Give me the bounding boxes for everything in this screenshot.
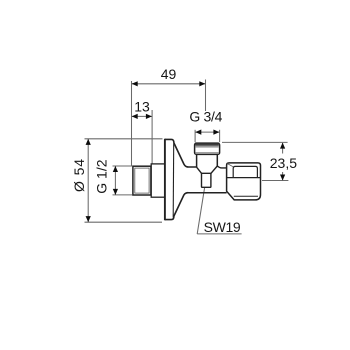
svg-text:13: 13 [134,99,150,115]
svg-text:G 3/4: G 3/4 [189,108,222,124]
svg-text:Ø 54: Ø 54 [71,158,87,192]
svg-text:23,5: 23,5 [270,155,297,171]
svg-text:49: 49 [161,66,177,82]
svg-text:G 1/2: G 1/2 [93,159,109,193]
svg-text:SW19: SW19 [204,219,241,235]
